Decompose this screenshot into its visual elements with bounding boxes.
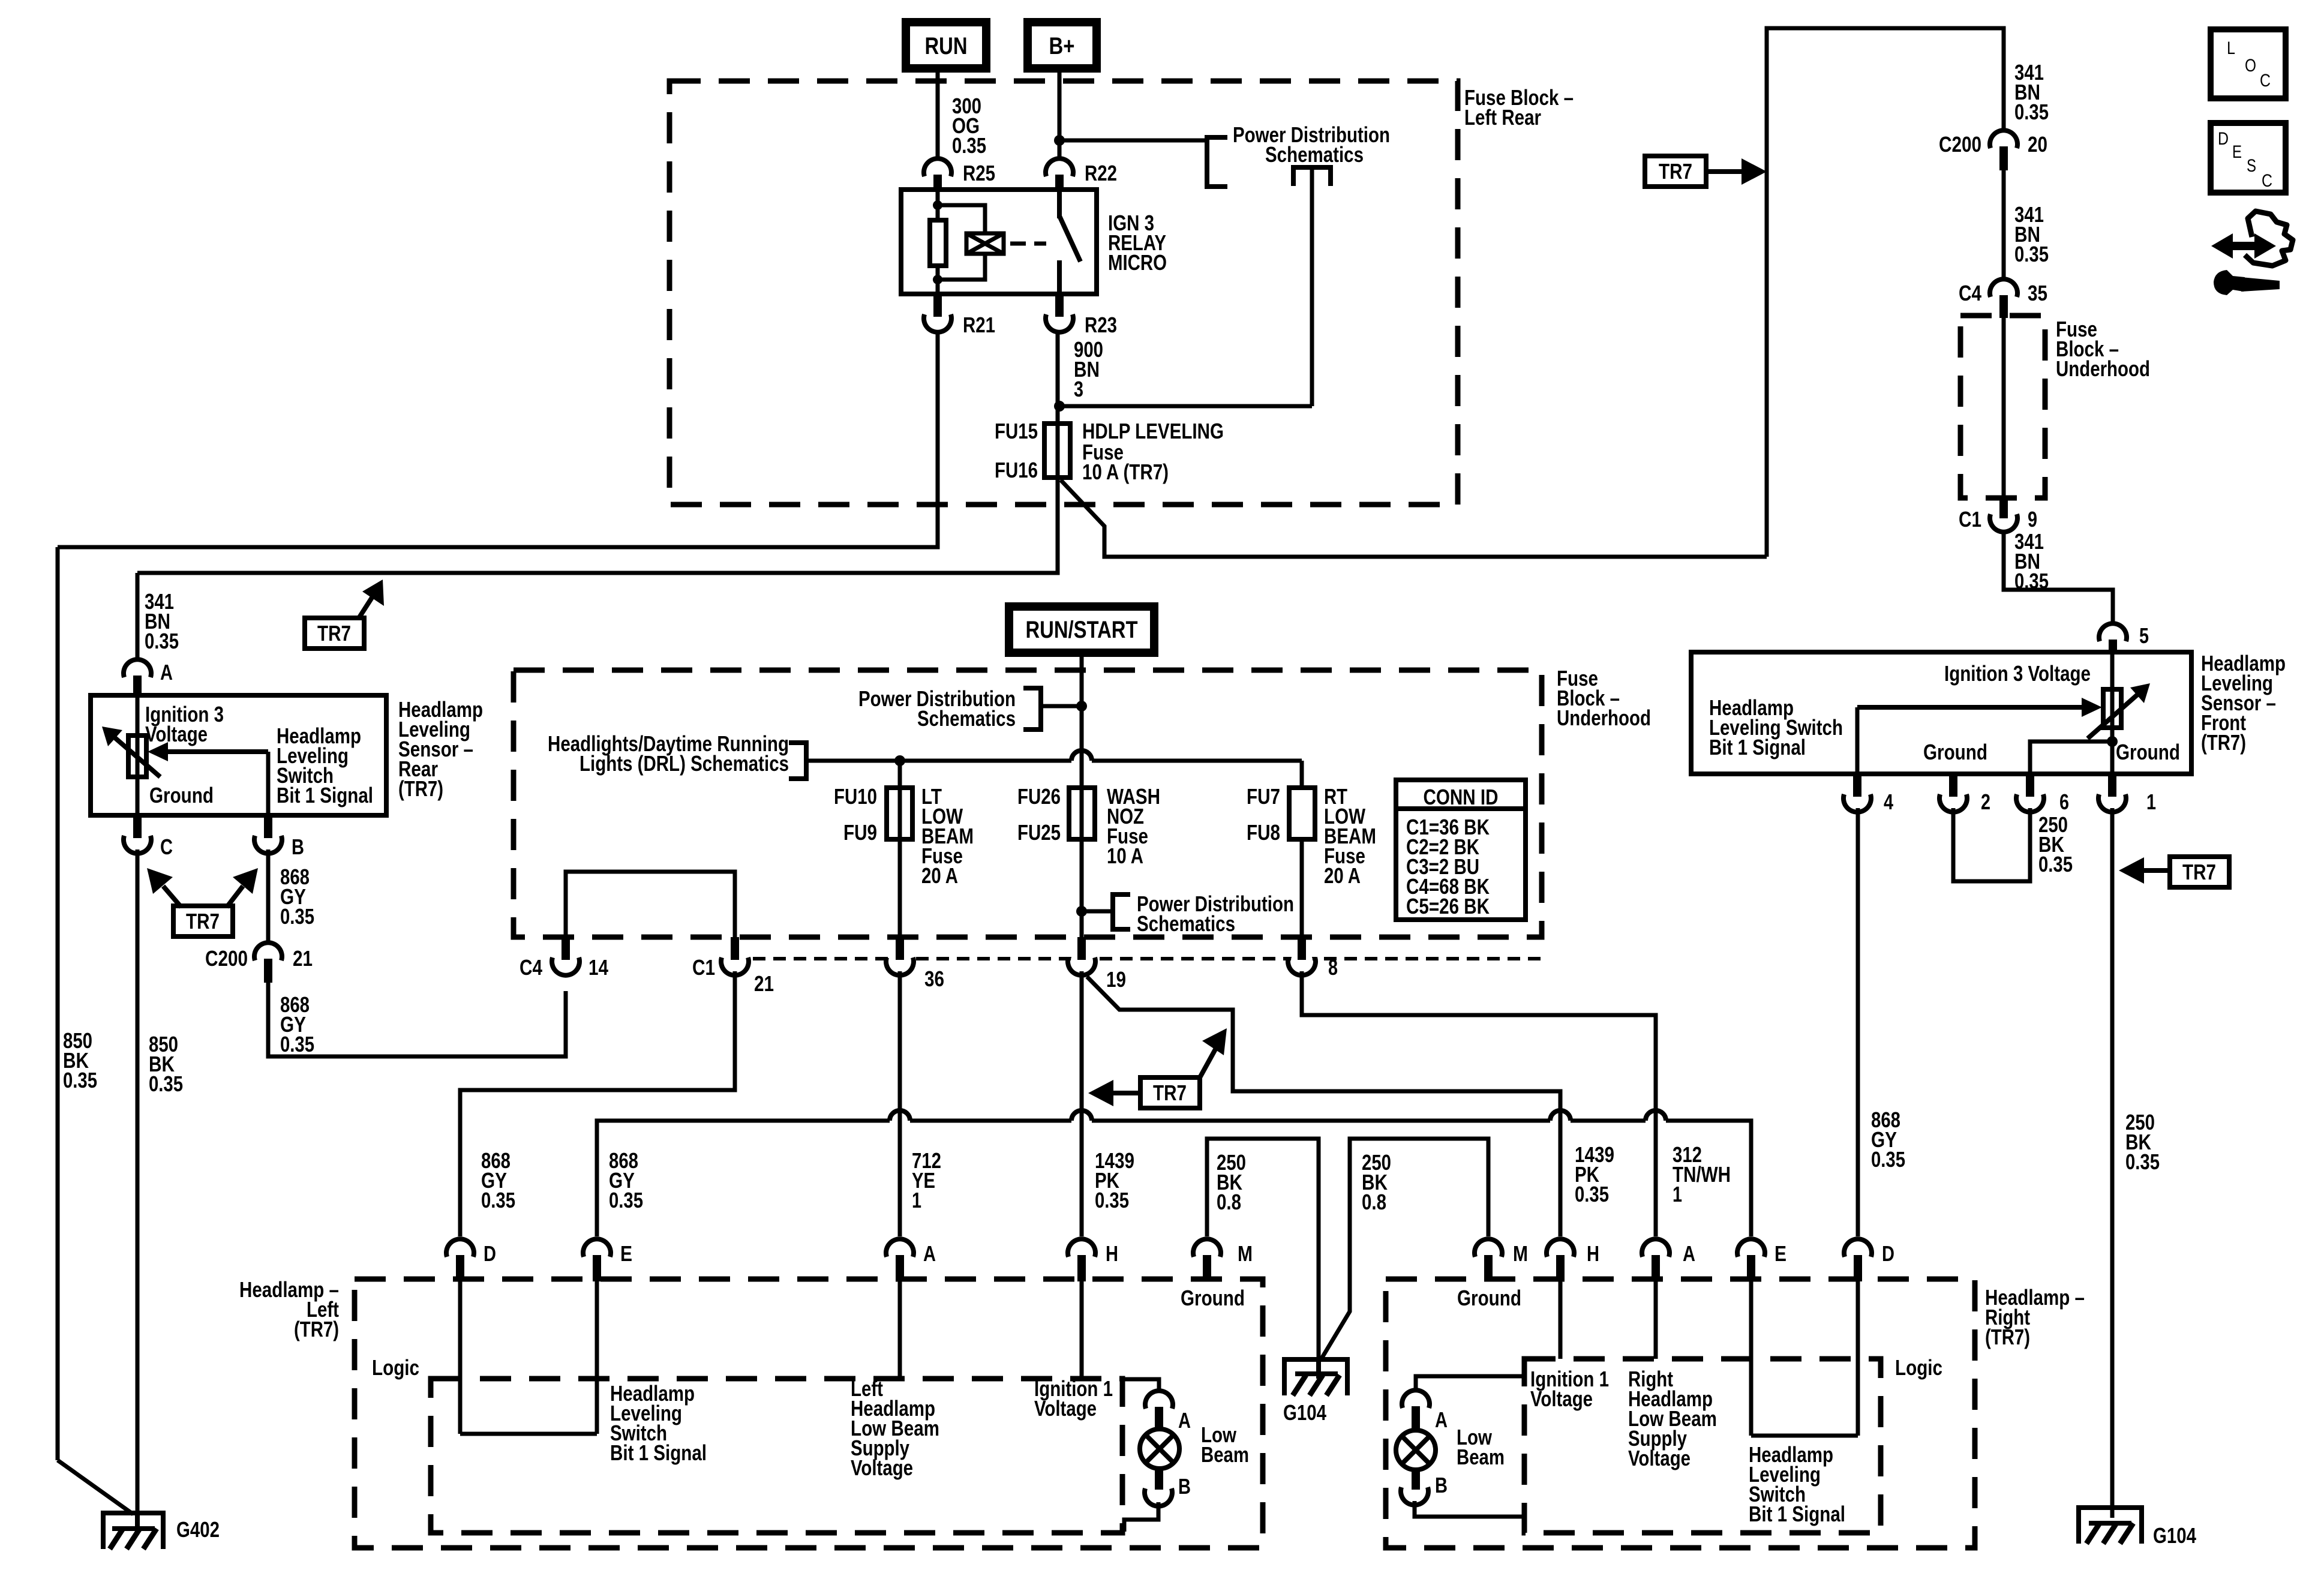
svg-text:0.35: 0.35 xyxy=(1871,1147,1905,1172)
bracket power distribution schematics (central lower) xyxy=(1082,894,1130,929)
svg-text:D: D xyxy=(1882,1241,1894,1266)
fuse FU10/FU9 LT LOW BEAM xyxy=(887,788,912,839)
svg-text:FU26: FU26 xyxy=(1017,784,1061,809)
svg-text:C200: C200 xyxy=(1939,132,1981,157)
wire pin H into logic (right) xyxy=(1559,1281,1563,1359)
svg-text:20 A: 20 A xyxy=(1324,863,1361,888)
wire pin 36 to left headlamp pin A xyxy=(898,971,902,1236)
wire pin B to C200-21 xyxy=(266,849,271,944)
wire label 868 GY 0.35 (pin D right) xyxy=(1871,1107,1905,1172)
wire pot ground to pin 6 xyxy=(2030,742,2112,774)
svg-text:1: 1 xyxy=(1673,1182,1682,1206)
svg-text:FU15: FU15 xyxy=(995,419,1038,443)
svg-text:1: 1 xyxy=(912,1188,921,1212)
Fuse Block - Left Rear dashed box xyxy=(669,81,1458,505)
Headlamp - Right dashed box xyxy=(1386,1279,1975,1548)
wire through underhood block xyxy=(2002,316,2006,498)
svg-text:A: A xyxy=(1683,1241,1695,1266)
svg-text:Bit 1 Signal: Bit 1 Signal xyxy=(1749,1502,1845,1526)
wire label 341 BN 0.35 (top) xyxy=(2014,60,2049,124)
wire pin 19 branch to right headlamp pin H xyxy=(1087,977,1560,1236)
junction node R23 net xyxy=(1054,401,1065,412)
svg-text:E: E xyxy=(2232,142,2242,162)
wire label 300 OG 0.35 xyxy=(952,94,986,158)
relay coil branch wire xyxy=(933,190,985,294)
headlamp leveling sensor front box xyxy=(1691,652,2191,774)
wire C1-9 to pin 5 xyxy=(2004,532,2113,625)
svg-text:Bit 1 Signal: Bit 1 Signal xyxy=(277,783,373,807)
svg-text:6: 6 xyxy=(2059,789,2069,814)
svg-text:10 A: 10 A xyxy=(1107,843,1143,868)
svg-text:D: D xyxy=(2218,129,2229,149)
pin A bulb left xyxy=(1145,1391,1191,1433)
svg-text:A: A xyxy=(923,1241,936,1266)
svg-text:D: D xyxy=(484,1241,496,1266)
svg-text:B+: B+ xyxy=(1049,33,1075,59)
junction node DRL to FU10 xyxy=(894,755,905,766)
junction node on B+ wire xyxy=(1054,135,1065,146)
bulb low beam right xyxy=(1396,1430,1436,1470)
connector C200 pin 20 xyxy=(1939,130,2047,170)
label Headlamp - Left (TR7) xyxy=(239,1277,339,1341)
TR7 callout upper left xyxy=(305,580,384,649)
svg-text:Ground: Ground xyxy=(1457,1286,1521,1310)
wire 341 feed down to rear switch pin A xyxy=(136,573,140,659)
pin A bulb right xyxy=(1402,1390,1448,1432)
wire label 900 BN 3 xyxy=(1074,337,1103,401)
svg-text:21: 21 xyxy=(754,971,774,996)
svg-text:Lights (DRL) Schematics: Lights (DRL) Schematics xyxy=(580,751,789,776)
svg-text:FU10: FU10 xyxy=(834,784,877,809)
svg-text:Schematics: Schematics xyxy=(917,706,1016,731)
svg-text:0.35: 0.35 xyxy=(609,1188,643,1212)
svg-text:0.8: 0.8 xyxy=(1217,1190,1241,1214)
svg-text:(TR7): (TR7) xyxy=(1985,1325,2030,1349)
label Ignition 1 Voltage (left headlamp) xyxy=(1034,1376,1113,1421)
svg-text:G402: G402 xyxy=(176,1517,220,1542)
wire bit 1 loop bottom (right) xyxy=(1751,1434,1858,1438)
wire pin 8 to right headlamp pin A xyxy=(1302,971,1656,1236)
pin 2 front sensor xyxy=(1939,774,1990,814)
TR7 callout top right xyxy=(1645,156,1767,187)
svg-text:Ground: Ground xyxy=(1923,740,1987,764)
pin A left headlamp xyxy=(886,1239,936,1281)
wire pin 1 to ground G104 right xyxy=(2110,808,2115,1518)
wire label 250 BK 0.35 (pin 6) xyxy=(2038,812,2073,876)
wire label 341 BN 0.35 (mid) xyxy=(2014,202,2049,266)
svg-text:FU8: FU8 xyxy=(1247,820,1280,845)
wire label 1439 PK 0.35 (right) xyxy=(1575,1142,1614,1206)
power feed box RUN/START xyxy=(1009,607,1154,653)
svg-text:Voltage: Voltage xyxy=(1530,1386,1593,1411)
wiper arrow rear switch xyxy=(148,742,268,761)
svg-text:TR7: TR7 xyxy=(2182,860,2216,884)
bracket below label with drop wire to R23 net xyxy=(1059,167,1331,406)
svg-text:FU25: FU25 xyxy=(1017,820,1061,845)
headlamp leveling switch rear box xyxy=(91,695,386,815)
pin A right headlamp xyxy=(1642,1239,1695,1281)
svg-text:G104: G104 xyxy=(2153,1523,2196,1548)
svg-text:RUN: RUN xyxy=(925,33,968,59)
wire label 868 GY 0.35 (pin E left) xyxy=(609,1148,643,1212)
label Headlamp Leveling Switch Bit 1 Signal (rear) xyxy=(277,724,373,807)
relay switch contact xyxy=(1059,190,1080,294)
svg-text:Voltage: Voltage xyxy=(1034,1396,1097,1421)
wire label 312 TN/WH 1 xyxy=(1673,1142,1731,1206)
svg-text:0.35: 0.35 xyxy=(481,1188,515,1212)
connector pin 8 xyxy=(1288,937,1338,980)
power feed box RUN xyxy=(906,22,986,68)
svg-text:1: 1 xyxy=(2146,789,2156,814)
svg-text:0.35: 0.35 xyxy=(145,629,179,653)
pin D right headlamp xyxy=(1844,1239,1894,1281)
svg-text:0.35: 0.35 xyxy=(280,1032,314,1056)
pin B rear switch xyxy=(254,815,304,859)
wire bit 1 loop bottom (left) xyxy=(460,1432,597,1436)
svg-text:9: 9 xyxy=(2028,507,2037,532)
junction node run/start xyxy=(1076,701,1087,712)
fuse FU15/FU16 HDLP LEVELING xyxy=(1044,424,1070,478)
wire FU16 diagonal branch to right riser xyxy=(1061,480,1767,557)
svg-text:14: 14 xyxy=(588,955,608,980)
label Power Distribution Schematics (central lower) xyxy=(1137,891,1294,936)
relay linkage dashes xyxy=(1010,242,1046,246)
svg-text:M: M xyxy=(1513,1241,1528,1266)
svg-text:FU9: FU9 xyxy=(843,820,877,845)
wire label 850 BK 0.35 (left) xyxy=(63,1028,97,1092)
svg-text:0.35: 0.35 xyxy=(2014,100,2049,124)
label Headlamp Leveling Switch Bit 1 Signal (right headlamp) xyxy=(1749,1442,1845,1526)
TR7 callout mid xyxy=(1088,1028,1227,1108)
wire FU10 feed xyxy=(898,761,902,788)
label Low Beam (right) xyxy=(1457,1425,1505,1469)
svg-text:(TR7): (TR7) xyxy=(2201,730,2246,755)
label HDLP LEVELING Fuse 10A xyxy=(1082,419,1224,484)
pin E left headlamp xyxy=(583,1239,632,1281)
wire pin E to bit 1 loop xyxy=(595,1281,599,1434)
relay coil symbol xyxy=(966,233,1004,254)
svg-text:C200: C200 xyxy=(205,946,248,971)
svg-text:Ground: Ground xyxy=(2116,740,2180,764)
svg-text:TR7: TR7 xyxy=(317,621,351,646)
connector row dashed line xyxy=(753,957,1542,960)
svg-text:A: A xyxy=(1435,1407,1448,1432)
wire R23 down to fuse xyxy=(1056,332,1060,424)
wire pin 4 to right headlamp pin D xyxy=(1856,808,1860,1236)
connector C4 pin 35 xyxy=(1959,279,2047,318)
svg-text:O: O xyxy=(2245,56,2256,76)
wire bulb B return (right) xyxy=(1415,1501,1524,1517)
label Fuse Block - Underhood (central) xyxy=(1557,666,1651,730)
wire bulb A feed (left) xyxy=(1124,1379,1159,1392)
svg-text:Left Rear: Left Rear xyxy=(1464,105,1541,130)
potentiometer front sensor xyxy=(2103,689,2121,728)
label Headlamp Leveling Switch Bit 1 Signal (front sensor) xyxy=(1709,695,1843,760)
svg-text:2: 2 xyxy=(1981,789,1990,814)
svg-text:Voltage: Voltage xyxy=(1628,1446,1691,1470)
svg-text:Schematics: Schematics xyxy=(1137,911,1235,936)
pin R21 xyxy=(924,294,995,337)
relay resistor xyxy=(930,220,946,266)
svg-text:36: 36 xyxy=(924,966,944,991)
relay box IGN 3 RELAY MICRO xyxy=(901,190,1097,294)
wire label 850 BK 0.35 (pin C) xyxy=(149,1032,183,1096)
svg-text:0.35: 0.35 xyxy=(149,1071,183,1096)
TR7 callout at pins C and B xyxy=(147,868,258,936)
svg-text:C: C xyxy=(2262,171,2272,191)
svg-text:19: 19 xyxy=(1106,967,1126,992)
wire label 1439 PK 0.35 (left) xyxy=(1095,1148,1134,1212)
svg-text:CONN ID: CONN ID xyxy=(1424,785,1499,809)
fuse FU7/FU8 RT LOW BEAM xyxy=(1289,788,1315,937)
label Left Headlamp Low Beam Supply Voltage xyxy=(851,1376,939,1480)
wire wiper to pin 4 xyxy=(1855,707,1860,774)
junction node pot ground xyxy=(2107,736,2118,747)
svg-text:Beam: Beam xyxy=(1457,1445,1505,1469)
wiper arrow front sensor xyxy=(1857,698,2102,717)
svg-text:C4: C4 xyxy=(1959,281,1981,305)
wire FU16 output down-left to rear sensor feed xyxy=(137,478,1058,573)
wire B+ to R22 xyxy=(1058,68,1062,158)
wire label 868 GY 0.35 (pin B upper) xyxy=(280,864,314,929)
label Fuse Block - Left Rear xyxy=(1464,85,1574,130)
connector pin 19 xyxy=(1068,937,1126,992)
potentiometer arrow rear xyxy=(102,727,160,777)
wire pin D to bit 1 loop (right) xyxy=(1856,1281,1860,1436)
svg-text:8: 8 xyxy=(1328,955,1338,980)
wire label 341 BN 0.35 (lower) xyxy=(2014,529,2049,593)
svg-text:L: L xyxy=(2227,38,2235,58)
Fuse Block - Underhood central dashed box xyxy=(514,670,1542,937)
wire pin D to bit 1 loop xyxy=(458,1281,463,1434)
svg-text:R25: R25 xyxy=(963,161,995,185)
pin E right headlamp xyxy=(1737,1239,1786,1281)
svg-text:MICRO: MICRO xyxy=(1108,250,1167,275)
pin R22 xyxy=(1046,158,1117,192)
svg-text:10 A (TR7): 10 A (TR7) xyxy=(1082,460,1169,484)
label Power Distribution Schematics (central upper) xyxy=(858,686,1016,731)
svg-text:Underhood: Underhood xyxy=(1557,706,1651,730)
pin R23 xyxy=(1046,294,1117,337)
bulb low beam left xyxy=(1140,1429,1179,1469)
svg-text:E: E xyxy=(620,1241,632,1266)
connector C1 pin 21 xyxy=(692,937,774,996)
wire pin 19 to left headlamp pin H xyxy=(1080,971,1084,1236)
label IGN 3 RELAY MICRO xyxy=(1108,211,1167,275)
wire pin A into logic (right) xyxy=(1654,1281,1658,1359)
icon arrow and wrench xyxy=(2211,211,2293,295)
svg-text:35: 35 xyxy=(2028,281,2047,305)
fuse FU26/FU25 WASH NOZ xyxy=(1069,788,1095,839)
logic dashed box left xyxy=(431,1379,1122,1533)
svg-text:R23: R23 xyxy=(1085,313,1117,337)
svg-text:0.35: 0.35 xyxy=(1095,1188,1129,1212)
svg-text:G104: G104 xyxy=(1283,1400,1326,1425)
pin M right headlamp xyxy=(1475,1239,1528,1281)
wire R21 to ground run xyxy=(58,332,938,547)
svg-text:Bit 1 Signal: Bit 1 Signal xyxy=(610,1440,707,1465)
wire label 341 BN 0.35 (rear switch) xyxy=(145,589,179,653)
wire left headlamp pin M ground xyxy=(1207,1139,1319,1359)
svg-text:20 A: 20 A xyxy=(921,863,958,888)
wire pin 2 to pin 6 loop xyxy=(1953,808,2030,881)
wire pin 21 to left headlamp pin D xyxy=(460,971,735,1236)
wire RUN to R25 xyxy=(936,68,940,158)
svg-text:FU7: FU7 xyxy=(1247,784,1280,809)
svg-text:R21: R21 xyxy=(963,313,995,337)
wire bulb A feed (right) xyxy=(1416,1376,1524,1391)
power feed box B+ xyxy=(1028,22,1097,68)
svg-text:0.8: 0.8 xyxy=(1362,1190,1386,1214)
svg-text:3: 3 xyxy=(1074,377,1083,401)
label Headlamp Leveling Sensor - Rear xyxy=(398,697,483,801)
svg-text:A: A xyxy=(160,660,173,685)
svg-text:M: M xyxy=(1238,1241,1253,1266)
wire through rear switch xyxy=(136,695,140,815)
svg-text:Logic: Logic xyxy=(1895,1355,1942,1380)
svg-text:0.35: 0.35 xyxy=(2125,1149,2160,1174)
icon DESC xyxy=(2211,123,2286,193)
pin M left headlamp xyxy=(1193,1239,1253,1281)
svg-text:TR7: TR7 xyxy=(1153,1080,1187,1105)
wire label 250 BK 0.35 (pin 1) xyxy=(2125,1110,2160,1174)
label Power Distribution Schematics (fuse block left rear) xyxy=(1233,122,1390,167)
pin H right headlamp xyxy=(1547,1239,1599,1281)
svg-text:B: B xyxy=(1435,1473,1448,1497)
connector pin 36 xyxy=(886,937,944,991)
label LT LOW BEAM Fuse 20 A xyxy=(921,784,974,888)
label Low Beam (left) xyxy=(1201,1422,1249,1467)
svg-text:Schematics: Schematics xyxy=(1265,142,1364,167)
pin B bulb left xyxy=(1145,1469,1191,1506)
svg-text:C1: C1 xyxy=(692,955,715,980)
label Right Headlamp Low Beam Supply Voltage xyxy=(1628,1367,1717,1470)
svg-text:0.35: 0.35 xyxy=(2038,852,2073,876)
wire DRL bus to fuses xyxy=(806,751,1302,788)
svg-text:Ground: Ground xyxy=(1181,1286,1245,1310)
Fuse Block - Underhood small dashed box xyxy=(1960,316,2045,498)
svg-text:TR7: TR7 xyxy=(1659,159,1692,184)
label Headlamp Leveling Switch Bit 1 Signal (left headlamp) xyxy=(610,1381,707,1465)
pin 4 front sensor xyxy=(1843,774,1893,814)
wire riser to top right xyxy=(1767,28,2004,557)
Headlamp - Left dashed box xyxy=(355,1279,1263,1548)
svg-text:B: B xyxy=(292,834,304,859)
wire pin C to G402 xyxy=(136,849,140,1524)
pin 5 headlamp leveling sensor front xyxy=(2099,623,2149,655)
wire label 868 GY 0.35 (pin B lower) xyxy=(280,992,314,1056)
svg-text:20: 20 xyxy=(2028,132,2047,157)
svg-text:0.35: 0.35 xyxy=(63,1068,97,1092)
svg-text:H: H xyxy=(1587,1241,1599,1266)
label Ignition 3 Voltage xyxy=(145,702,224,746)
wire pin A into logic xyxy=(898,1281,902,1379)
logic dashed box right xyxy=(1524,1359,1881,1533)
ground G104 (center) xyxy=(1283,1359,1347,1425)
svg-text:0.35: 0.35 xyxy=(1575,1182,1609,1206)
bracket power distribution schematics (top) xyxy=(1207,137,1227,187)
connector C200 pin 21 xyxy=(205,942,313,983)
bracket power distribution schematics (central upper) xyxy=(1023,688,1082,730)
svg-text:(TR7): (TR7) xyxy=(294,1317,339,1341)
wire RUN/START into fuse block xyxy=(1080,653,1084,788)
pin D left headlamp xyxy=(446,1239,496,1281)
label Headlights/Daytime Running Lights (DRL) Schematics xyxy=(548,731,789,776)
svg-text:FU16: FU16 xyxy=(995,458,1038,482)
TR7 callout right xyxy=(2119,857,2229,887)
pin B bulb right xyxy=(1401,1470,1448,1505)
wire 868 bus pin E left to pin E right with hops xyxy=(597,1110,1751,1236)
wire C200 to C4 xyxy=(2002,170,2006,279)
svg-text:E: E xyxy=(1774,1241,1786,1266)
label Headlamp Leveling Sensor - Front (TR7) xyxy=(2201,651,2286,755)
ground G402 xyxy=(58,1460,220,1549)
svg-text:Ignition 3 Voltage: Ignition 3 Voltage xyxy=(1944,661,2091,686)
wire label 250 BK 0.8 (right) xyxy=(1362,1150,1391,1214)
svg-text:RUN/START: RUN/START xyxy=(1026,617,1138,643)
svg-text:Bit 1 Signal: Bit 1 Signal xyxy=(1709,735,1806,760)
label Fuse Block - Underhood (right) xyxy=(2056,317,2150,381)
svg-text:4: 4 xyxy=(1884,789,1893,814)
svg-text:5: 5 xyxy=(2139,623,2149,648)
pin R25 xyxy=(924,158,995,192)
ground G104 (right) xyxy=(2079,1508,2196,1548)
table CONN ID xyxy=(1396,780,1526,920)
wire junction to bracket (power distribution) xyxy=(1059,139,1207,143)
svg-text:21: 21 xyxy=(293,946,313,971)
wire pin H into logic xyxy=(1080,1281,1084,1379)
svg-text:0.35: 0.35 xyxy=(2014,242,2049,266)
pin 6 front sensor xyxy=(2016,774,2069,814)
wire loop pin 14 to pin 21 xyxy=(566,872,735,937)
wire label 712 YE 1 xyxy=(912,1148,941,1212)
wire FU10 to pin 36 xyxy=(898,839,902,937)
pin H left headlamp xyxy=(1068,1239,1118,1281)
svg-text:B: B xyxy=(1178,1474,1191,1499)
svg-text:TR7: TR7 xyxy=(186,909,220,933)
pin A rear leveling switch xyxy=(124,659,173,698)
svg-text:C1: C1 xyxy=(1959,507,1981,532)
icon LOC xyxy=(2211,29,2286,98)
wire right headlamp pin M ground xyxy=(1321,1139,1488,1359)
svg-text:Underhood: Underhood xyxy=(2056,356,2150,381)
label WASH NOZ Fuse 10 A xyxy=(1107,784,1160,868)
connector C4 pin 14 xyxy=(520,937,608,980)
bracket DRL schematics xyxy=(789,743,806,779)
svg-text:C: C xyxy=(160,834,173,859)
svg-text:Ground: Ground xyxy=(149,783,214,807)
svg-text:Logic: Logic xyxy=(372,1355,419,1380)
wire FU26 to pin 19 xyxy=(1080,839,1084,937)
svg-text:C4: C4 xyxy=(520,955,542,980)
pin 1 front sensor xyxy=(2098,774,2156,814)
connector C1 pin 9 xyxy=(1959,496,2037,532)
svg-text:S: S xyxy=(2247,156,2256,176)
svg-text:R22: R22 xyxy=(1085,161,1117,185)
svg-text:(TR7): (TR7) xyxy=(398,776,443,801)
wire bulb B return (left) xyxy=(1124,1502,1158,1532)
potentiometer arrow front xyxy=(2088,683,2150,739)
label RT LOW BEAM Fuse 20 A xyxy=(1324,784,1376,888)
svg-text:C5=26 BK: C5=26 BK xyxy=(1406,894,1490,918)
potentiometer rear switch xyxy=(128,736,146,777)
wire label 868 GY 0.35 (pin D left) xyxy=(481,1148,515,1212)
svg-text:H: H xyxy=(1106,1241,1118,1266)
wire wiper to pin B xyxy=(266,752,271,815)
svg-text:0.35: 0.35 xyxy=(952,133,986,158)
pin C rear switch xyxy=(124,815,173,859)
label Headlamp - Right (TR7) xyxy=(1985,1285,2085,1349)
